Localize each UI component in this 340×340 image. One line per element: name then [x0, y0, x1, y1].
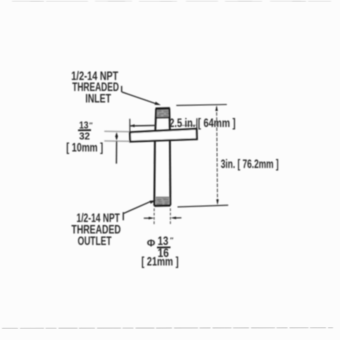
svg-text:32: 32 [79, 131, 90, 143]
svg-text:INLET: INLET [85, 92, 111, 106]
svg-text:[ 10mm ]: [ 10mm ] [66, 143, 103, 155]
svg-text:13: 13 [158, 236, 169, 248]
svg-text:OUTLET: OUTLET [78, 234, 112, 248]
svg-text:″: ″ [170, 238, 174, 245]
svg-text:Φ: Φ [147, 239, 156, 250]
svg-text:″: ″ [89, 122, 93, 129]
svg-text:[ 21mm ]: [ 21mm ] [141, 257, 178, 269]
svg-text:2.5 in. [ 64mm ]: 2.5 in. [ 64mm ] [169, 116, 235, 130]
svg-text:3in. [ 76.2mm ]: 3in. [ 76.2mm ] [221, 157, 279, 171]
